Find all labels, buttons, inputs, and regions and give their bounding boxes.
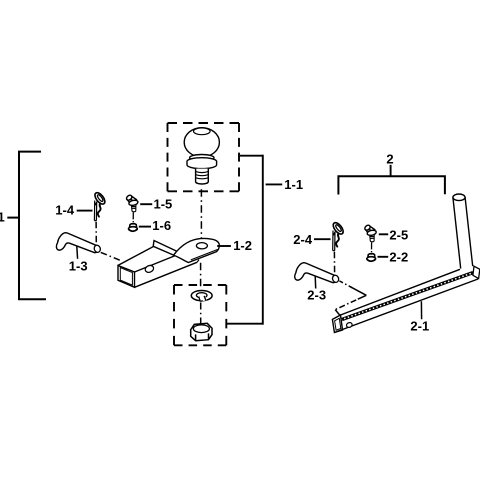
bracket for group 2 bbox=[338, 176, 445, 194]
hitch ball 1-1 bbox=[184, 128, 219, 184]
svg-text:2-1: 2-1 bbox=[410, 319, 429, 334]
leader dash for label 1-1 bbox=[266, 183, 283, 185]
axis from pin 1-3 into tube bbox=[101, 252, 120, 260]
split lock washer bbox=[191, 291, 212, 302]
leader line for label 1-3 bbox=[76, 246, 79, 259]
svg-text:2-4: 2-4 bbox=[293, 232, 313, 247]
dashed box around washer and nut (1-1 group) bbox=[174, 285, 226, 345]
clip (R-pin) 1-4 bbox=[93, 191, 107, 221]
leader dash for label 2-5 bbox=[379, 233, 388, 235]
ball mount 1-2 : tongue plate bbox=[174, 239, 220, 263]
hex nut bbox=[191, 323, 212, 340]
stub from label 2 to bracket bbox=[390, 165, 392, 176]
leader dash for label 1-4 bbox=[77, 210, 93, 212]
ball mount 1-2 : square tube bbox=[118, 247, 199, 288]
axis from tongue down to washer box bbox=[200, 263, 202, 290]
bracket for group 1 bbox=[19, 152, 46, 300]
ball hole on tongue bbox=[196, 243, 207, 249]
carrier bar 2-1 : bottom-front edge bbox=[334, 279, 478, 333]
svg-text:2-2: 2-2 bbox=[389, 250, 408, 265]
leader dash for label 2-2 bbox=[378, 256, 389, 258]
axis from pin 2-3 to carrier bar (V path) bbox=[335, 281, 366, 315]
leader dash for label 1-2 bbox=[217, 245, 231, 247]
leader line for label 2-1 bbox=[420, 301, 422, 319]
cluster instance 2 (parts 2-3,2-4,2-5,2-2) bbox=[295, 221, 377, 283]
svg-text:1-5: 1-5 bbox=[154, 196, 173, 211]
leader dash for label 1 bbox=[7, 217, 18, 219]
connector line ball box to 1-1 vertical bbox=[240, 155, 264, 157]
carrier bar 2-1 : hatched top-front edge bbox=[342, 272, 474, 321]
dashed box around hitch ball 1-1 bbox=[168, 123, 240, 191]
svg-text:2-5: 2-5 bbox=[389, 228, 408, 243]
leader dash for label 1-6 bbox=[139, 226, 151, 228]
carrier bar 2-1 : top-back edge bbox=[341, 269, 461, 315]
leader dash for label 2-4 bbox=[314, 238, 331, 240]
carrier bar 2-1 : right end face bbox=[473, 266, 480, 278]
hitch pin hole on carrier bar bbox=[346, 322, 353, 328]
connector line nut box to 1-1 vertical bbox=[227, 323, 264, 325]
svg-text:1-6: 1-6 bbox=[152, 218, 171, 233]
svg-text:1-2: 1-2 bbox=[233, 238, 252, 253]
center axis from ball to ball-mount hole bbox=[200, 189, 202, 246]
axis from washer to nut bbox=[200, 303, 202, 330]
hitch pin 1-3 bbox=[56, 233, 98, 253]
bolt-to-nut axis bbox=[132, 212, 134, 223]
svg-text:1-1: 1-1 bbox=[284, 177, 303, 192]
carrier bar 2-1 : left end face bbox=[332, 315, 342, 333]
vertical post of carrier bar bbox=[453, 194, 473, 269]
bolt 1-5 bbox=[126, 194, 139, 212]
svg-text:1-3: 1-3 bbox=[69, 258, 88, 273]
ball mount 1-2 : riser strap bbox=[153, 241, 177, 256]
leader dash for label 1-5 bbox=[140, 203, 152, 205]
cluster instance 1 (parts 1-3,1-4,1-5,1-6) bbox=[56, 191, 138, 253]
vertical grouping line 1-1 bbox=[262, 155, 264, 325]
svg-text:1: 1 bbox=[0, 210, 5, 225]
svg-text:1-4: 1-4 bbox=[55, 203, 75, 218]
flanged nut 1-6 bbox=[129, 224, 138, 232]
svg-text:2: 2 bbox=[386, 152, 393, 167]
clip-to-pin axis bbox=[95, 222, 97, 244]
svg-text:2-3: 2-3 bbox=[307, 288, 326, 303]
leader line for label 2-3 bbox=[314, 276, 317, 289]
hitch pin hole on tube bbox=[144, 264, 154, 273]
